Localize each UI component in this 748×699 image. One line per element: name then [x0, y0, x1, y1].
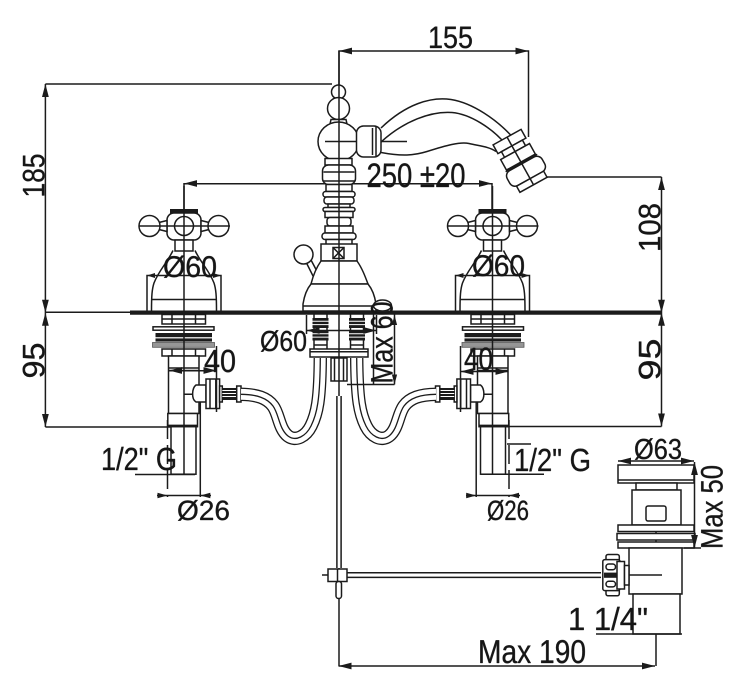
dimension Ø60 left handle [147, 256, 221, 311]
mounting plate [310, 349, 368, 357]
pop-up rod [337, 396, 341, 568]
faucet body: top finials [328, 85, 350, 124]
center shank right [349, 314, 365, 352]
faucet center axis line [338, 51, 340, 396]
dimension Ø26 right [466, 493, 528, 521]
dimension 185 [23, 84, 332, 427]
center shank left [313, 314, 329, 352]
dimension Max 60 [347, 302, 397, 384]
label 1 1/4" [570, 607, 646, 631]
faucet main body ball [318, 122, 407, 161]
dimension Ø26 left [157, 493, 229, 521]
label 1/2" G left [103, 447, 195, 475]
dimension 250 +-20 [184, 163, 492, 209]
horizontal linkage rod [347, 573, 601, 578]
countertop deck line [45, 311, 661, 315]
dimension Max 190 [339, 640, 656, 669]
rod clamp [322, 569, 347, 599]
center body bell [303, 261, 376, 311]
spout tube (3 lines) [381, 99, 512, 155]
spout connector ring [357, 126, 382, 157]
drain assembly [596, 465, 695, 666]
axis lower segment [338, 568, 340, 666]
deck hole ellipse [374, 300, 392, 311]
dimension 40 left [169, 346, 235, 412]
right valve assembly below deck (mirror) [436, 315, 525, 498]
dimension Ø63 [618, 438, 694, 464]
left valve side port [193, 385, 206, 402]
pop-up rod housing [331, 358, 347, 381]
drain linkage gear nut [606, 555, 619, 596]
valve body block with X mark [321, 244, 357, 261]
left valve assembly below deck [153, 315, 242, 498]
dimension 108 and 95 right [505, 177, 665, 427]
dimension Ø60 center [261, 315, 377, 352]
flexible hose left [241, 358, 320, 438]
flexible hose right (mirror) [357, 358, 436, 438]
label 1/2" G right [481, 444, 589, 474]
dimension 155 [339, 27, 529, 137]
column between ball and base [322, 159, 356, 245]
left handle [139, 186, 230, 311]
drain lever knob [294, 245, 320, 280]
dimension 40 right [461, 346, 509, 412]
dimension Ø60 right handle [456, 255, 530, 311]
aerator assembly [490, 127, 551, 194]
dimension 95 left [23, 313, 183, 427]
dimension Max 50 [684, 462, 723, 548]
right handle [448, 186, 539, 311]
